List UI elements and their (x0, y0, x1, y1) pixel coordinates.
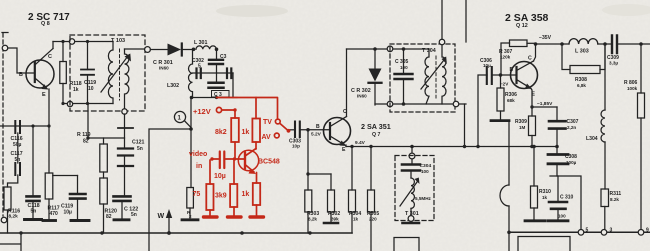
node dot (530, 105, 533, 108)
resistor R304 (349, 147, 356, 234)
svg-text:82: 82 (83, 139, 89, 145)
wire mid ladder (193, 72, 234, 74)
pin 5 terminal (578, 230, 584, 236)
wire bottom T103 primary (63, 103, 113, 105)
red wire 75 to gnd (209, 210, 211, 216)
svg-text:−2V: −2V (500, 82, 509, 87)
terminal T301 bottom (408, 209, 414, 223)
red input node blob (210, 157, 213, 160)
svg-text:1k: 1k (242, 129, 250, 136)
ground bar R310 (525, 219, 545, 222)
dashed line top tick (2, 32, 8, 34)
svg-text:8.2k: 8.2k (610, 197, 619, 202)
red node blob base (233, 157, 236, 160)
capacitor C305 (395, 49, 413, 104)
svg-text:10p: 10p (292, 144, 300, 149)
svg-text:in: in (196, 163, 202, 170)
collector top wire (347, 48, 430, 50)
pin 9 terminal (638, 230, 644, 236)
inductor L303 (562, 39, 605, 44)
inductor L301 (196, 46, 216, 49)
capacitor C307 (549, 107, 566, 147)
svg-text:T 103: T 103 (111, 38, 125, 44)
wire top rail Q8 collector to T103 (53, 41, 113, 43)
capacitor C122 (114, 196, 131, 218)
resistor R302 (328, 174, 335, 223)
resistor R310 (531, 147, 538, 221)
resistor R117 (45, 173, 53, 220)
resistor R120 (100, 178, 108, 233)
svg-text:L 301: L 301 (194, 40, 208, 46)
svg-text:100k: 100k (627, 86, 638, 91)
svg-text:8,2k: 8,2k (9, 214, 19, 220)
T304 core (435, 56, 437, 98)
svg-text:1k: 1k (73, 87, 79, 93)
transistor Q12 (511, 61, 538, 89)
transistor Q8 (26, 49, 54, 90)
node dot (189, 127, 193, 131)
transistor Q7 (324, 117, 351, 147)
red wire 3k9 top (233, 159, 235, 184)
node dot (86, 136, 89, 139)
capacitor C118 (27, 126, 40, 219)
wire to right edge (641, 43, 650, 45)
wire collector Q8 (52, 42, 54, 49)
svg-text:5n: 5n (131, 212, 137, 218)
red ground bar 75 (204, 215, 218, 218)
wire emitter Q8 (48, 89, 50, 173)
resistor R306 (497, 75, 504, 120)
svg-text:75: 75 (193, 191, 201, 198)
node dot (499, 73, 503, 77)
node dot (603, 42, 607, 46)
wire stub top edge right (465, 0, 467, 42)
T103 primary coil (108, 42, 113, 104)
svg-text:C: C (343, 109, 347, 115)
node dot (86, 102, 89, 105)
svg-text:470: 470 (50, 211, 59, 217)
ground bar R306 (491, 119, 509, 122)
wire -1.85V (532, 106, 557, 108)
svg-text:L 303: L 303 (575, 49, 589, 55)
wire emitter Q7 to rail (345, 145, 347, 147)
svg-text:C121: C121 (132, 140, 145, 146)
node dot (306, 128, 310, 132)
red capacitor 10u (220, 152, 225, 169)
node dot (61, 102, 64, 105)
ground bar C122 (114, 218, 129, 221)
terminal T304 top (439, 39, 445, 45)
svg-text:+12V: +12V (193, 107, 211, 116)
capacitor C116 (15, 121, 20, 163)
svg-text:Q 7: Q 7 (372, 132, 380, 138)
wire rail up to C306 (478, 75, 487, 147)
inductor L302 (189, 49, 193, 97)
W arrow (166, 209, 172, 233)
node dot (369, 145, 372, 148)
svg-text:−1,85V: −1,85V (537, 101, 553, 107)
emitter wire Q12 (531, 89, 532, 117)
wire to top edge (441, 0, 443, 39)
red wire 1k drop (255, 98, 257, 119)
bottom wire T304 (375, 103, 466, 105)
red resistor 1k collector (252, 119, 260, 143)
red text labels (189, 107, 280, 200)
wire R119 feed (88, 104, 125, 139)
capacitor C119 (81, 42, 94, 104)
resistor R806 (638, 44, 645, 233)
svg-text:C3: C3 (220, 54, 227, 60)
red wire emitter down (256, 173, 258, 184)
svg-text:50µ: 50µ (13, 142, 22, 148)
T304 tuning arrow (421, 57, 447, 90)
capacitor C117 (8, 163, 21, 187)
svg-text:9.4V: 9.4V (355, 140, 366, 146)
terminal on box left edge top (387, 46, 393, 52)
wire secondary bottom (124, 114, 126, 128)
svg-text:2 SA 351: 2 SA 351 (361, 122, 391, 131)
wire collector Q7 (346, 49, 348, 117)
svg-text:R 119: R 119 (77, 132, 91, 138)
T301 tuning arrow (400, 178, 420, 207)
node dot C305 top (402, 47, 406, 51)
svg-text:68k: 68k (507, 98, 515, 103)
node dot (215, 96, 218, 99)
svg-text:BC548: BC548 (258, 159, 280, 166)
connector box B below bus (518, 237, 570, 251)
T103 tuning arrow (101, 54, 131, 93)
red wire 8k2 to base (234, 142, 236, 159)
svg-text:82: 82 (106, 214, 112, 220)
wire down from node1 rail (190, 98, 192, 188)
wire lower left (0, 125, 49, 127)
svg-text:−35V: −35V (539, 35, 552, 41)
red wire top rail (217, 98, 278, 119)
svg-text:10µ: 10µ (64, 210, 73, 216)
red input wire (212, 158, 219, 160)
node dot (530, 145, 534, 149)
T103 secondary coil (125, 49, 129, 109)
T304 coil (425, 49, 429, 104)
node dot C305 bottom (402, 102, 406, 106)
svg-text:10µ: 10µ (483, 63, 491, 68)
red switch contact AV (274, 133, 279, 138)
ground bar mid resistor (182, 218, 198, 221)
svg-text:2,2n: 2,2n (567, 125, 576, 130)
ground bus wire (0, 232, 352, 234)
capacitor C302 top (209, 49, 223, 73)
red resistor 1k emitter (253, 183, 260, 205)
wire below bus (508, 233, 510, 251)
wire T304 out down to rail (464, 104, 466, 147)
connector box A below bus (394, 238, 419, 251)
node dot (350, 145, 353, 148)
wire to pin 5 (550, 176, 581, 233)
capacitor vertical pair left (197, 69, 201, 79)
red wire 8k2 drop (234, 110, 236, 118)
red switch contact TV (275, 119, 280, 124)
pin 3 terminal (601, 230, 607, 236)
wire left branch (149, 129, 191, 251)
svg-text:8,2k: 8,2k (308, 217, 317, 222)
node dot (463, 145, 466, 148)
svg-text:5n: 5n (31, 209, 37, 215)
svg-text:1k: 1k (242, 191, 250, 198)
svg-text:100: 100 (421, 169, 429, 174)
left edge dashed line (2, 33, 4, 216)
T103 core (119, 49, 121, 100)
svg-text:6,8k: 6,8k (577, 83, 586, 88)
node dot (507, 231, 511, 235)
terminal on top wire (69, 39, 74, 44)
svg-text:L302: L302 (167, 83, 179, 89)
svg-text:10: 10 (88, 86, 94, 92)
ground bar T301 (403, 222, 420, 225)
terminal T304 out (453, 101, 459, 107)
capacitor C306 (487, 67, 517, 84)
resistor R311 (601, 189, 609, 233)
node dot (476, 145, 479, 148)
svg-text:C 310: C 310 (560, 195, 574, 201)
svg-text:100: 100 (558, 214, 566, 219)
node dot (190, 96, 194, 100)
T301 coil (411, 178, 414, 208)
node dot (192, 48, 196, 52)
wire -35V rail (536, 43, 563, 45)
node dot (47, 124, 50, 127)
resistor R303 with divider wire (305, 130, 331, 233)
capacitor C310 (549, 176, 567, 220)
node dot (555, 145, 559, 149)
svg-text:L304: L304 (586, 136, 598, 142)
red node blob (233, 108, 236, 111)
svg-text:10µ: 10µ (214, 173, 226, 180)
red ground bar 3k9 (228, 215, 242, 218)
node dot (410, 145, 414, 149)
svg-text:3: 3 (610, 228, 613, 234)
boxed label C3 (212, 91, 230, 98)
svg-text:5.2V: 5.2V (311, 132, 322, 138)
svg-text:AV: AV (262, 134, 272, 141)
svg-text:E: E (532, 92, 536, 98)
capacitor C121 stack (118, 128, 133, 196)
resistor R309 (529, 116, 536, 147)
svg-text:5: 5 (586, 228, 589, 234)
svg-text:TV: TV (263, 119, 272, 126)
capacitor C304 (402, 165, 420, 179)
node dot (215, 48, 219, 52)
capacitor C119b 10u (70, 176, 86, 220)
svg-text:Q 8: Q 8 (41, 21, 50, 27)
wire collector Q12 (534, 44, 536, 61)
red wire +12V feed (222, 109, 235, 111)
svg-text:IN60: IN60 (357, 94, 367, 99)
svg-text:1M: 1M (519, 125, 526, 130)
svg-text:5n: 5n (15, 157, 21, 163)
red wire collector to 1k (255, 142, 257, 149)
terminal secondary bottom (122, 109, 127, 114)
emitter rail 9.4V (346, 146, 557, 148)
wire secondary top to terminal (125, 48, 145, 50)
red resistor 3k9 (230, 184, 237, 207)
svg-text:8k2: 8k2 (215, 129, 227, 136)
red wire cap to base (226, 158, 246, 160)
svg-text:100: 100 (400, 65, 408, 70)
terminal on bottom wire (387, 101, 393, 107)
svg-text:B: B (19, 72, 23, 78)
svg-text:9: 9 (646, 228, 649, 234)
wire emitter junction row (53, 175, 78, 177)
node dot (86, 40, 89, 43)
red +12V terminal (216, 107, 221, 112)
red resistor 8k2 (231, 118, 239, 142)
T304 box (390, 44, 455, 112)
svg-text:120k: 120k (500, 55, 511, 60)
node dot (532, 145, 536, 149)
bus stub bottom left (0, 233, 21, 251)
ground bar C119b (71, 219, 89, 222)
ground bar R302 (324, 222, 338, 225)
svg-text:E: E (342, 147, 346, 153)
svg-text:B: B (510, 67, 514, 73)
svg-text:39k: 39k (331, 217, 339, 222)
ground bar C310 (548, 219, 568, 222)
wire right ladder leg (232, 73, 234, 98)
red lever tip blob (287, 129, 291, 133)
capacitor C303 (290, 122, 330, 138)
T301 box (395, 156, 434, 221)
capacitor C308 (548, 147, 568, 177)
red wire 3k9 to gnd (233, 207, 235, 216)
terminal T103 output (145, 47, 151, 53)
resistor R mid (187, 188, 194, 220)
node dot (306, 172, 309, 175)
ground bar C118 (25, 218, 42, 221)
node dot (61, 40, 64, 43)
svg-text:3k9: 3k9 (215, 193, 227, 200)
svg-text:C: C (528, 56, 532, 62)
transformer T103 box (70, 35, 145, 111)
svg-text:video: video (189, 151, 207, 158)
resistor R308 (562, 44, 605, 74)
node 1 circled (174, 111, 191, 127)
bus node dots (19, 231, 311, 235)
svg-text:E: E (42, 92, 46, 98)
diode CR302 (369, 49, 382, 105)
svg-text:C: C (48, 54, 52, 60)
svg-text:5: 5 (198, 64, 201, 70)
svg-text:Q 12: Q 12 (516, 23, 528, 29)
svg-text:IN60: IN60 (159, 66, 169, 71)
capacitor C3 mid (209, 73, 224, 88)
resistor R305 (368, 147, 375, 251)
resistor R119 (100, 138, 108, 178)
red ground bar 1k (250, 215, 264, 218)
terminal on bottom wire (67, 101, 72, 106)
red wire 75 top (209, 160, 211, 184)
svg-text:3,3µ: 3,3µ (609, 61, 618, 66)
scan smudge top right (602, 4, 650, 16)
node dot (560, 42, 564, 46)
T304 secondary line (442, 45, 446, 104)
node dot (639, 42, 643, 46)
wire base Q8 (8, 48, 35, 73)
svg-text:B: B (316, 124, 320, 130)
svg-text:5n: 5n (137, 146, 143, 152)
input terminal node (2, 45, 8, 51)
red wire emitter res to gnd (256, 205, 258, 216)
svg-text:T 304: T 304 (422, 48, 436, 54)
red transistor BC548 (238, 149, 258, 175)
inductor L304 column (601, 44, 605, 189)
node dot (31, 124, 34, 127)
capacitor C309 (605, 36, 641, 54)
resistor R116 (4, 187, 11, 233)
svg-text:2: 2 (189, 214, 192, 219)
svg-text:220: 220 (369, 217, 377, 222)
terminal at left edge bottom (1, 217, 7, 223)
svg-text:1k: 1k (353, 217, 359, 222)
terminal T301 top (409, 147, 415, 165)
wire hop column (500, 121, 509, 233)
svg-text:1k: 1k (542, 195, 548, 200)
node dot (534, 42, 538, 46)
resistor R118 (60, 42, 67, 104)
resistor R307 (501, 40, 536, 75)
capacitor vertical pair right (227, 69, 231, 79)
diode CR301 (168, 44, 194, 56)
node dot (373, 47, 377, 51)
wire node1 rail (191, 97, 237, 99)
svg-text:100µ: 100µ (566, 160, 577, 165)
scan smudge top middle (216, 5, 288, 17)
svg-text:W: W (158, 213, 165, 220)
wire from T103 to diode (150, 49, 167, 51)
ground bar R117 (43, 219, 56, 222)
red resistor 75 (206, 184, 213, 210)
ground bus wire right section (509, 231, 650, 233)
red switch lever (280, 124, 288, 131)
svg-text:T 301: T 301 (405, 211, 419, 217)
svg-text:5,5MHz: 5,5MHz (415, 196, 432, 201)
